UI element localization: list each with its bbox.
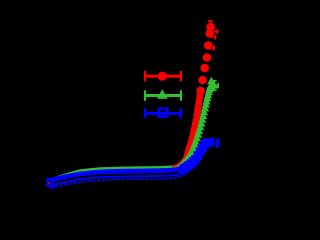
red series: rising chain of circles	[169, 88, 205, 173]
blue series: open square markers on rise	[181, 139, 215, 171]
legend entry blue	[144, 108, 182, 118]
legend entry red	[144, 71, 182, 81]
red speck in first hollow	[49, 182, 50, 184]
green series: flat band	[53, 169, 173, 181]
blue series: flat band	[50, 167, 187, 189]
red series: flat band	[53, 170, 173, 182]
green last point with error bars	[210, 80, 219, 91]
blue first square	[48, 179, 54, 186]
green series: rising chain of triangles	[170, 77, 217, 174]
red series: top points with error bars	[196, 20, 218, 95]
blue last square	[215, 138, 219, 147]
blue notch	[214, 138, 215, 148]
legend entry green	[144, 89, 182, 101]
